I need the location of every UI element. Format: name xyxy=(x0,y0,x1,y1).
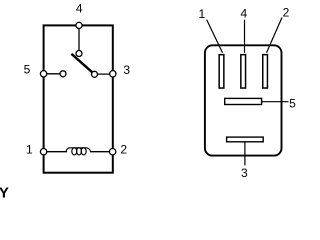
blade slot pin 2 xyxy=(263,55,268,88)
NO contact circle (pin 3 side) xyxy=(92,71,98,77)
svg-text:5: 5 xyxy=(24,62,31,76)
terminal pin 5 xyxy=(40,71,46,77)
blade slot pin 1 xyxy=(219,55,224,88)
svg-text:3: 3 xyxy=(123,63,130,77)
svg-text:4: 4 xyxy=(240,7,247,21)
leader line pin 5 (connector) xyxy=(262,101,289,103)
svg-text:Y: Y xyxy=(0,184,9,198)
terminal pin 1 xyxy=(40,149,46,155)
wire: coil to pin 2 xyxy=(90,151,113,153)
switch arm (movable contact) xyxy=(71,54,92,73)
svg-text:4: 4 xyxy=(76,2,83,16)
blade slot pin 5 xyxy=(225,98,262,104)
blade slot pin 4 xyxy=(241,55,246,88)
coil L (relay winding) xyxy=(66,148,91,155)
leader line pin 2 (connector) xyxy=(267,18,283,53)
terminal pin 3 xyxy=(110,71,116,77)
wire: NO contact to pin 3 xyxy=(95,73,113,75)
svg-text:1: 1 xyxy=(26,142,33,156)
NC contact circle (pin 5 side) xyxy=(60,71,66,77)
terminal pin 4 xyxy=(76,22,82,28)
svg-text:3: 3 xyxy=(241,166,248,180)
terminal pin 2 xyxy=(109,149,115,155)
wire: pin 5 to NC contact xyxy=(44,73,63,75)
svg-text:2: 2 xyxy=(283,6,290,20)
relay body outline xyxy=(44,25,113,172)
leader line pin 3 (connector) xyxy=(244,142,246,165)
leader line pin 1 (connector) xyxy=(207,20,223,53)
svg-text:1: 1 xyxy=(198,7,205,21)
svg-text:2: 2 xyxy=(120,142,127,156)
blade slot pin 3 xyxy=(227,137,264,142)
pivot contact circle under pin 4 xyxy=(76,51,82,57)
wire: pin 4 stem to pivot xyxy=(78,25,80,53)
connector face outline xyxy=(205,45,282,155)
wire: pin 1 to coil xyxy=(44,151,67,153)
svg-text:5: 5 xyxy=(289,97,296,111)
leader line pin 4 (connector) xyxy=(244,20,246,53)
